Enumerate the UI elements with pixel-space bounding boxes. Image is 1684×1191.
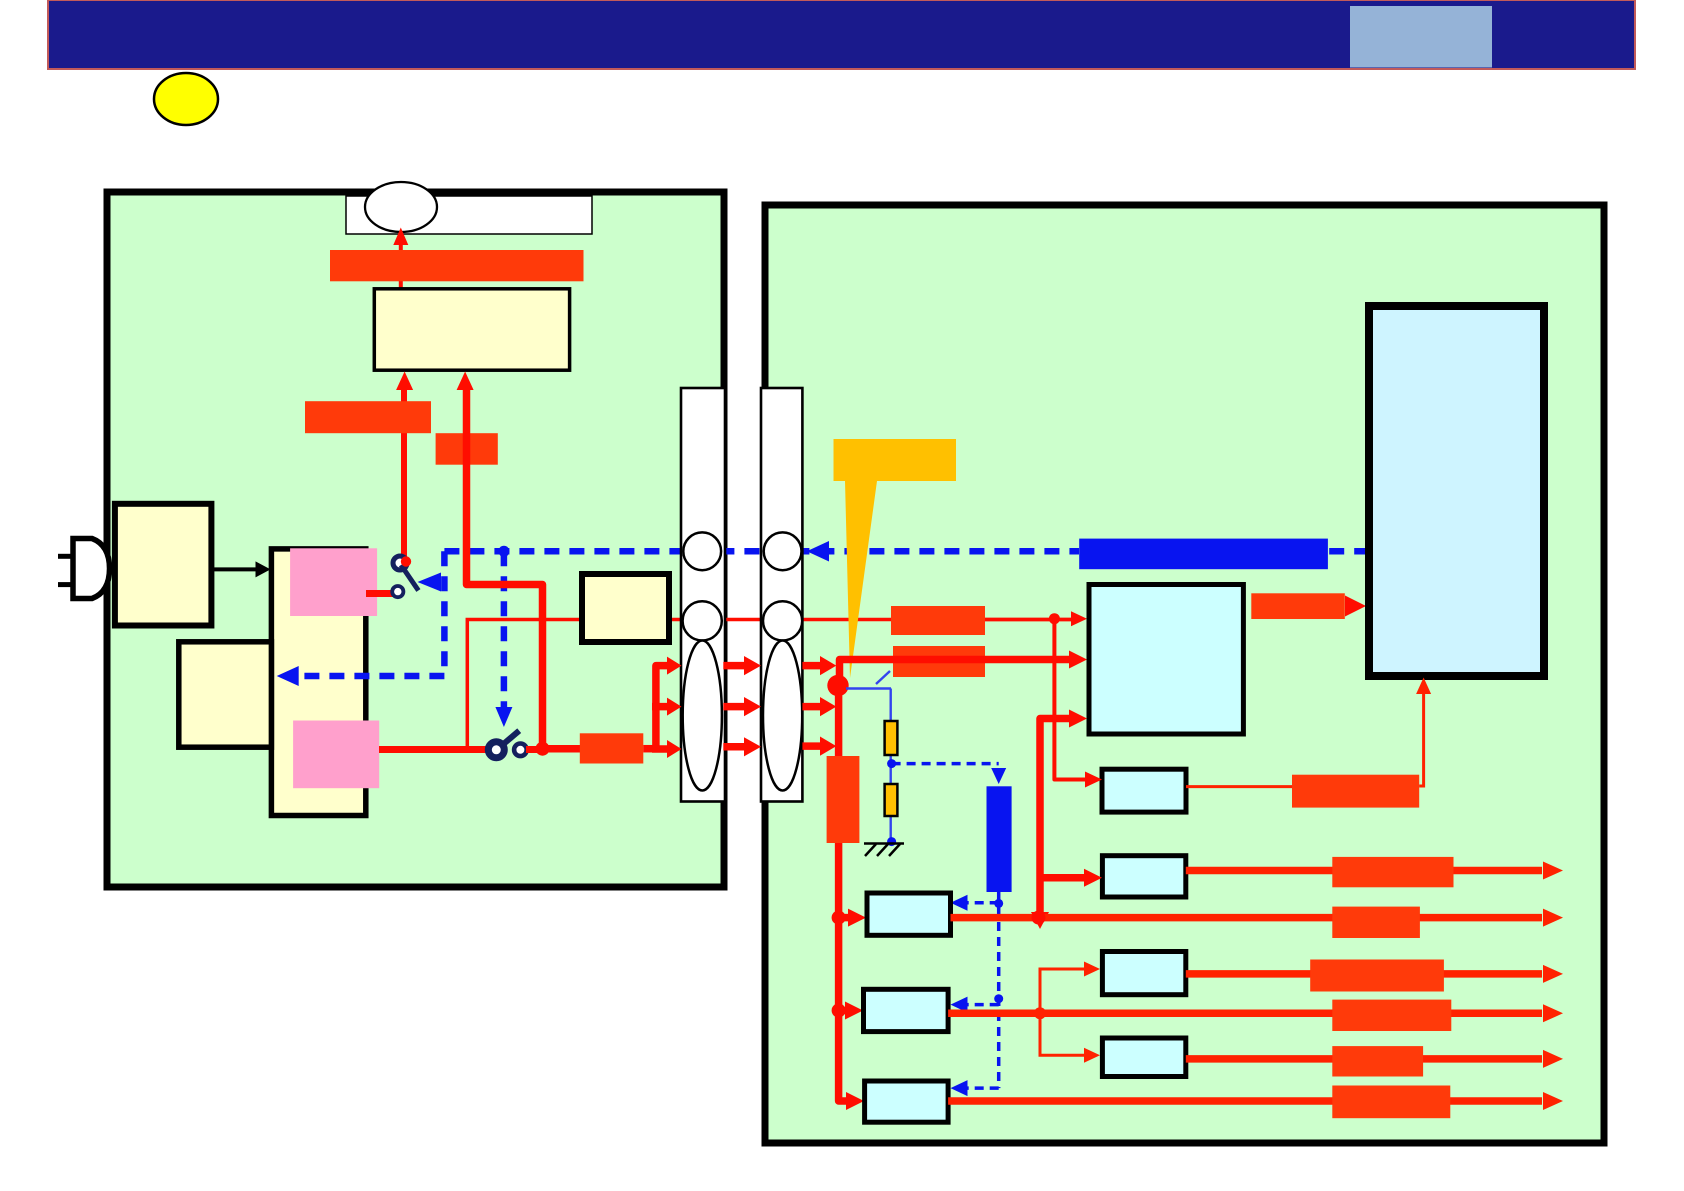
wire: black arrow adapter output: [211, 567, 257, 571]
yellow bullet ellipse: [154, 73, 218, 125]
wire: cell2 to switch S2: [379, 746, 490, 753]
transformer primary bobbin (white): [681, 388, 725, 802]
label bar (red) above control block: [330, 250, 584, 281]
blue dashed: arrow into box3: [966, 1003, 999, 1007]
wire: secondary power to PWM block (thick red): [840, 660, 1071, 687]
label bar (red) on arrow2: [436, 433, 498, 465]
blue dashed: vertical feedback bus: [997, 892, 1001, 1088]
cell block 2 (pink): [293, 721, 379, 789]
node: rail D junction: [1034, 1007, 1046, 1019]
AC plug symbol: [58, 539, 110, 599]
wire: arrow2 into control block: [457, 372, 474, 391]
rail F: line, bar, arrow: [948, 1097, 1542, 1105]
node: ground connection: [887, 837, 896, 846]
blue dashed: bar to big block: [1329, 548, 1367, 555]
label bar (red) on sense line: [891, 606, 985, 635]
wire: arrow into regulator box4: [846, 1092, 864, 1110]
node: feedback node 1: [994, 899, 1003, 908]
title bar accent rectangle: [1350, 6, 1492, 68]
label bar (red) on arrow1: [305, 401, 431, 433]
charger enclosure (left green box): [107, 192, 724, 887]
rail D: line, bar, arrow: [948, 1010, 1542, 1018]
node: feedback node 2: [994, 994, 1003, 1003]
wire: sense junction to feedback block: [1054, 619, 1086, 780]
rail B: line, bar, arrow: [951, 914, 1543, 922]
node: primary junction: [536, 742, 550, 756]
switch S2: [488, 731, 526, 758]
blue dashed control: arrow into battery stack: [298, 673, 444, 680]
label bar (red) feedback: [1292, 775, 1419, 808]
switch S1 stub wire: [366, 590, 393, 597]
wire: thin branch to block E: [1040, 1013, 1086, 1055]
wire: arrow into block A: [1040, 874, 1086, 882]
divider resistor R1 (orange): [885, 721, 898, 755]
blue dashed control: drop to switch S2: [501, 551, 508, 708]
wire: sense line into PWM block (thin red over bar): [985, 618, 1072, 622]
output block E (cyan): [1102, 1038, 1185, 1077]
output block A (cyan): [1102, 856, 1185, 897]
transformer secondary winding ellipse: [763, 641, 802, 791]
blue dashed control: junction node: [498, 546, 509, 557]
node: switch S1 top contact cap: [401, 556, 411, 566]
AC/DC adapter block (pale yellow): [115, 504, 211, 626]
wire: control dashed line (blue, behind transformer): [444, 548, 1079, 555]
wire: feedback block to bar: [1186, 785, 1292, 788]
monitor block (pale yellow, lower left): [179, 642, 272, 747]
wire: sense line (thin red, behind transformer): [467, 620, 1072, 749]
primary energy bracket with arrows: [652, 657, 682, 758]
secondary output arrows: [802, 656, 836, 756]
rail E: line, bar, arrow: [1186, 1055, 1542, 1063]
comparator bar (solid blue): [987, 786, 1012, 892]
transformer secondary bobbin (white): [761, 388, 802, 802]
label bar (red) on power line: [893, 646, 985, 677]
load resistor bar (wide red) on rail: [827, 756, 860, 843]
wire: junction to current-sense bar: [543, 745, 583, 753]
indicator panel (white rect at top): [346, 196, 592, 234]
output block C (cyan): [1102, 952, 1185, 995]
wire: switch S2 to junction: [526, 746, 546, 753]
transformer primary winding ellipse: [683, 641, 722, 791]
rail A: line, bar, arrow: [1186, 867, 1542, 875]
wire: arrow into regulator box2: [839, 914, 850, 922]
wire: feedback up into MCU: [1419, 692, 1423, 786]
voltage divider: blue tap line: [846, 671, 891, 842]
wire: primary drive (thick red): [467, 390, 543, 749]
indicator lamp (white ellipse): [365, 182, 437, 232]
switch S1: [392, 556, 418, 597]
blue dashed control: branch to S1 blade: [441, 551, 448, 676]
flux arrows between windings: [723, 656, 761, 756]
regulator box3 (cyan): [864, 989, 949, 1031]
node: sense junction: [1049, 613, 1060, 624]
transformer primary turn circle 1: [683, 532, 721, 570]
node: secondary output dot: [827, 675, 848, 696]
MCU block (big cyan): [1369, 306, 1544, 676]
wire: PWM output bar to MCU: [1251, 593, 1345, 619]
wire: PWM aux feed (thick red vertical): [1040, 719, 1070, 915]
rail C: line, bar, arrow: [1186, 970, 1542, 978]
control bus bar (solid blue): [1079, 539, 1328, 570]
regulator box2 (cyan): [867, 893, 951, 935]
blue dashed: arrow into box2: [966, 901, 999, 905]
title bar: [48, 0, 1635, 69]
cell block 1 (pink): [290, 548, 377, 616]
node: divider tap: [887, 759, 896, 768]
wire: lamp feed arrow (thin red up): [399, 243, 403, 294]
wire: arrow1 into control block: [396, 372, 413, 391]
regulator box4 (cyan): [865, 1081, 949, 1122]
blue dashed: arrow into box4: [966, 1086, 999, 1090]
appliance enclosure (right green box): [765, 205, 1604, 1143]
rectifier block (small pale yellow): [582, 574, 669, 642]
wire: main output rail (down the left of right box): [839, 692, 852, 1101]
label bar (red) current sense: [580, 733, 644, 763]
wire: thin branch to block C: [1040, 969, 1086, 1013]
lightning bolt symbol: [834, 439, 957, 678]
transformer primary turn circle 2: [683, 601, 722, 640]
control block (pale yellow): [374, 289, 569, 370]
divider resistor R2 (orange): [885, 784, 898, 816]
transformer secondary turn circle 2: [763, 601, 802, 640]
node: rail B junction: [1032, 911, 1046, 925]
wire: bar to primary bracket: [643, 745, 659, 753]
transformer secondary turn circle 1: [764, 532, 802, 570]
blue dashed control: arrowhead at secondary: [807, 541, 829, 562]
feedback block (cyan, opto): [1102, 769, 1186, 812]
wire: arrow into regulator box3: [839, 1007, 848, 1015]
PWM controller block (cyan): [1089, 585, 1243, 735]
blue dashed: divider tap to comparator bar: [892, 762, 999, 766]
battery stack block (tall pale yellow): [271, 549, 365, 816]
ground symbol: [864, 844, 904, 857]
